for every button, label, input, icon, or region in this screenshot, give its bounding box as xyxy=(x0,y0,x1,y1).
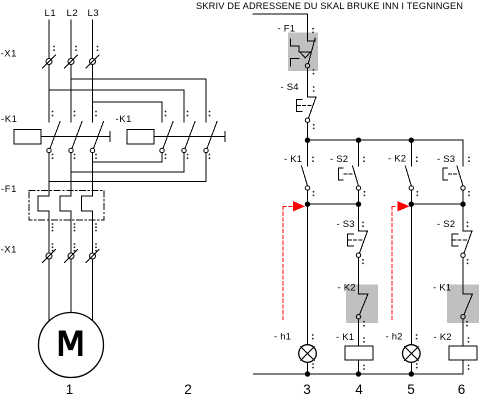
wire S3 to K2 interlock xyxy=(358,257,360,294)
wire K2 interlock to coil K1 xyxy=(358,319,360,346)
wire L2 column xyxy=(70,65,72,123)
terminal -X1 lower pin 3 xyxy=(86,250,99,263)
node rail bottom 3 xyxy=(409,372,413,376)
svg-text:- S2: - S2 xyxy=(437,219,455,230)
node A2 xyxy=(356,202,360,206)
wire T3 to motor terminal xyxy=(92,211,94,253)
svg-text:SKRIV DE ADRESSENE DU SKAL BRU: SKRIV DE ADRESSENE DU SKAL BRUKE INN I T… xyxy=(196,1,463,11)
contactor K1 main contact pole 1 xyxy=(47,111,60,160)
contact K2 interlock shaded background xyxy=(346,285,378,324)
wire motor lead 3 xyxy=(92,259,94,321)
address marks below F1 xyxy=(52,223,97,231)
wire K2 pole2 return to T2 xyxy=(71,153,184,172)
overload F1 heater element 1 xyxy=(38,196,49,211)
wire T1 to motor terminal xyxy=(48,211,50,253)
contact K1 interlock shaded background xyxy=(447,285,479,324)
lamp h1 xyxy=(299,334,317,368)
svg-text:- h1: - h1 xyxy=(274,332,291,343)
svg-text:-K1: -K1 xyxy=(1,114,17,125)
contactor K2 actuator link xyxy=(154,132,225,142)
address marks above lower X1 xyxy=(52,243,97,251)
node rail bottom 2 xyxy=(356,372,360,376)
wire tap L2 to K2 pole3 xyxy=(71,79,206,122)
svg-text:- K1: - K1 xyxy=(284,154,302,165)
pushbutton S2 NO contact xyxy=(339,140,366,204)
svg-text:-X1: -X1 xyxy=(1,245,17,256)
svg-text:- S4: - S4 xyxy=(281,82,299,93)
overload relay F1 boundary box xyxy=(29,191,104,221)
wire motor lead 2 xyxy=(70,259,72,313)
contactor K2 main contact pole 1 xyxy=(160,111,173,160)
wire T2 to motor terminal xyxy=(70,211,72,253)
terminal -X1 pin 1 xyxy=(43,46,56,68)
pushbutton S4 NC contact xyxy=(297,86,317,129)
contactor K1 main contact pole 2 xyxy=(69,111,82,160)
coil K1 xyxy=(345,337,373,370)
wire node row B xyxy=(411,203,463,205)
overload contact F1 NC contact xyxy=(305,28,315,75)
wire K1 interlock to coil K2 xyxy=(462,319,464,346)
wire L3 drop xyxy=(92,20,94,59)
terminal -X1 pin 3 xyxy=(86,46,99,68)
svg-text:- K2: - K2 xyxy=(388,153,406,164)
wire motor lead 1 xyxy=(48,259,50,321)
node rail junction 2 xyxy=(356,138,360,142)
terminal -X1 lower pin 1 xyxy=(43,250,56,263)
wire branch coil K1 upper xyxy=(358,204,360,231)
svg-text:-F1: -F1 xyxy=(1,184,17,195)
contactor K1 actuator link xyxy=(41,132,110,142)
node A1 xyxy=(305,202,309,206)
wire node row A xyxy=(308,203,359,205)
wire branch h1 xyxy=(307,204,309,345)
wire F1 to S4 xyxy=(307,68,309,97)
contactor K2 main contact pole 2 xyxy=(182,111,195,160)
svg-text:2: 2 xyxy=(184,382,192,397)
wire K2 pole1 return to T3 xyxy=(93,153,163,162)
wire L1 column xyxy=(48,65,50,123)
svg-text:5: 5 xyxy=(407,382,415,397)
wire h1 to rail xyxy=(307,362,309,374)
overload F1 heater element 2 xyxy=(60,196,71,211)
wire S2 to K1 interlock xyxy=(462,257,464,294)
pushbutton S3 NC contact xyxy=(348,222,368,265)
wire T1 column xyxy=(48,153,50,196)
wire S4 to rail xyxy=(307,122,309,140)
contact K2 aux NO xyxy=(405,140,418,204)
contactor K2 coil box xyxy=(127,130,154,145)
wire coil K1 to rail xyxy=(358,360,360,374)
wire coil K2 to rail xyxy=(462,360,464,374)
wire L2 drop xyxy=(70,20,72,59)
pushbutton S3 NO contact xyxy=(443,140,470,204)
wire L3 column xyxy=(92,65,94,123)
svg-text:3: 3 xyxy=(303,382,311,397)
overload contact F1 shaded background xyxy=(288,33,318,72)
svg-text:- K2: - K2 xyxy=(338,283,356,294)
node B2 xyxy=(461,202,465,206)
wire branch h2 xyxy=(410,204,412,345)
wire T2 column xyxy=(70,153,72,196)
svg-text:- S3: - S3 xyxy=(437,154,455,165)
wire K2 pole3 return to T1 xyxy=(49,153,206,182)
svg-text:-K1: -K1 xyxy=(116,114,132,125)
red pointer arrow 1 xyxy=(283,201,305,322)
svg-text:L2: L2 xyxy=(67,8,79,19)
svg-text:- K2: - K2 xyxy=(434,332,452,343)
wire tap L3 to K2 pole1 xyxy=(93,102,163,122)
node B1 xyxy=(409,202,413,206)
svg-text:- h2: - h2 xyxy=(386,332,403,343)
svg-text:4: 4 xyxy=(355,382,363,397)
node rail junction 1 xyxy=(305,138,309,142)
terminal -X1 pin 2 xyxy=(65,46,78,68)
svg-text:- K1: - K1 xyxy=(336,332,354,343)
wire tap L1 to K2 pole2 xyxy=(49,90,184,122)
svg-text:- S3: - S3 xyxy=(337,219,355,230)
node rail bottom 1 xyxy=(305,372,309,376)
red pointer arrow 2 xyxy=(392,201,410,322)
svg-text:L3: L3 xyxy=(88,8,100,19)
wire h2 to rail xyxy=(410,362,412,374)
svg-text:6: 6 xyxy=(458,382,466,397)
contact K1 aux NO xyxy=(302,140,315,204)
wire control rail bottom xyxy=(254,373,464,375)
contactor K2 main contact pole 3 xyxy=(204,111,217,160)
wire L1 drop xyxy=(48,20,50,59)
svg-text:- S2: - S2 xyxy=(330,154,348,165)
terminal -X1 lower pin 2 xyxy=(65,250,78,263)
svg-text:- F1: - F1 xyxy=(278,24,296,35)
svg-text:L1: L1 xyxy=(45,8,57,19)
wire T3 column xyxy=(92,153,94,196)
motor M xyxy=(39,313,104,378)
overload F1 heater element 3 xyxy=(82,196,93,211)
contact K1 interlock NC xyxy=(461,294,473,327)
wire control rail top xyxy=(308,139,464,141)
contact K2 interlock NC xyxy=(356,294,368,327)
contactor K1 coil box xyxy=(14,130,41,145)
node rail junction 3 xyxy=(409,138,413,142)
lamp h2 xyxy=(403,334,421,368)
coil K2 xyxy=(449,337,477,370)
contactor K1 main contact pole 3 xyxy=(90,111,103,160)
wire control feed xyxy=(253,14,308,41)
svg-text:- K1: - K1 xyxy=(433,283,451,294)
pushbutton S2 NC contact xyxy=(452,222,472,265)
svg-text:1: 1 xyxy=(66,382,74,397)
overload contact F1 trip mechanism xyxy=(291,39,311,66)
svg-text:-X1: -X1 xyxy=(1,49,17,60)
wire branch coil K2 upper xyxy=(462,204,464,231)
